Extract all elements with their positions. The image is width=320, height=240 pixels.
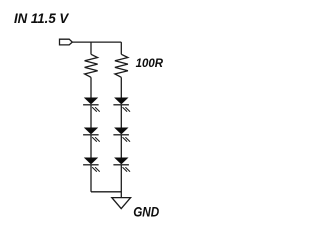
wire: D1 to D2 xyxy=(90,105,92,128)
connector pin IN xyxy=(60,39,73,45)
LED D4 xyxy=(113,98,129,112)
wire: left branch drop to R1 xyxy=(90,42,92,54)
wire: bottom horizontal rail xyxy=(91,191,121,193)
wire: R1 to D1 xyxy=(90,77,92,98)
wire: R2 to D4 xyxy=(120,77,122,98)
ground xyxy=(112,198,131,209)
LED D6 xyxy=(113,158,129,172)
wire: D6 to ground symbol xyxy=(120,165,122,198)
wire: D5 to D6 xyxy=(120,135,122,158)
LED D2 xyxy=(83,128,99,142)
LED D5 xyxy=(113,128,129,142)
wire: right branch drop to R2 xyxy=(120,42,122,54)
svg-text:GND: GND xyxy=(133,204,159,219)
wire: D2 to D3 xyxy=(90,135,92,158)
resistor R1 xyxy=(85,54,98,77)
LED D1 xyxy=(83,98,99,112)
wire: pin to branches (top horizontal) xyxy=(72,41,121,43)
svg-text:100R: 100R xyxy=(136,56,164,70)
LED D3 xyxy=(83,158,99,172)
svg-text:IN 11.5 V: IN 11.5 V xyxy=(14,11,70,26)
wire: D4 to D5 xyxy=(120,105,122,128)
resistor R2 xyxy=(115,54,128,77)
wire: D3 to bottom rail xyxy=(90,165,92,192)
